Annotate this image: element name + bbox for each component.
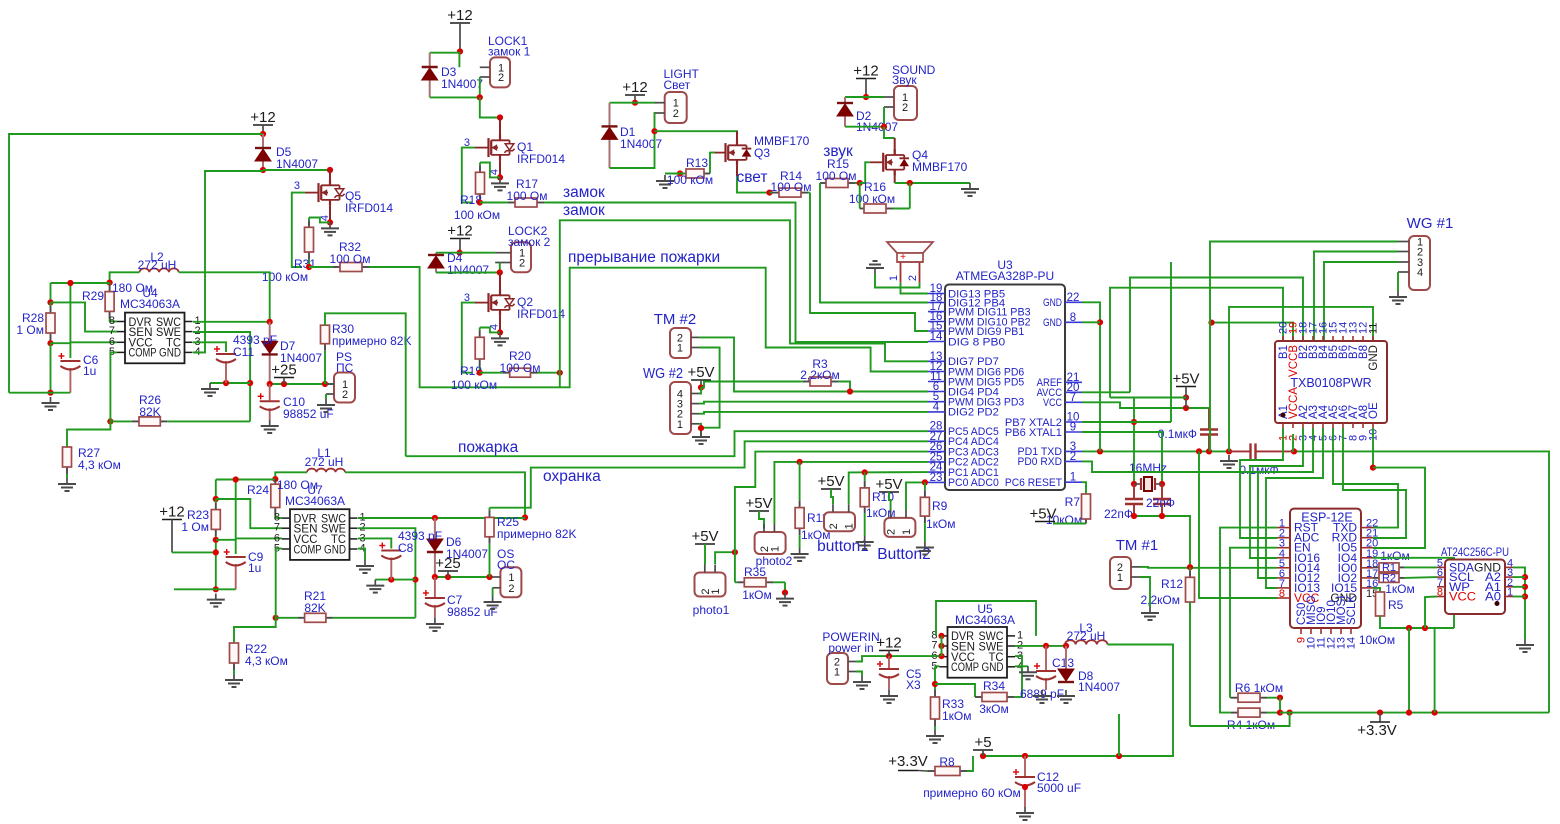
resistor R32	[309, 263, 370, 272]
svg-text:пожарка: пожарка	[458, 439, 519, 456]
wire +25 row U7	[435, 576, 493, 578]
net wire пожарка	[406, 431, 928, 456]
resistor R8	[927, 767, 968, 776]
wire Q4 drain red	[894, 138, 896, 155]
junction	[260, 167, 266, 173]
label Q5 value	[345, 201, 393, 215]
wire v1434	[1434, 628, 1436, 713]
svg-text:2,2кОм: 2,2кОм	[800, 368, 840, 382]
svg-text:+12: +12	[853, 63, 878, 80]
svg-text:1кОм: 1кОм	[926, 517, 956, 531]
IC U3 ATMEGA328P-PU	[928, 283, 1082, 490]
svg-text:GND: GND	[1043, 297, 1062, 309]
label R16	[864, 180, 886, 194]
wire v1409	[1408, 628, 1410, 713]
junction	[1183, 394, 1189, 400]
wire powerin pin2	[856, 656, 940, 661]
svg-text:4: 4	[1417, 267, 1423, 279]
label D7 value	[280, 351, 322, 365]
svg-text:AT24C256C-PU: AT24C256C-PU	[1441, 545, 1509, 559]
svg-text:SCLK: SCLK	[1346, 595, 1358, 625]
wire B8 feed	[1229, 307, 1373, 452]
net wire охранка	[490, 441, 929, 507]
label R11 value	[801, 528, 831, 542]
wire B1 feed	[1110, 288, 1283, 398]
label LIGHT	[664, 67, 700, 81]
label R23 value	[181, 520, 209, 534]
svg-text:100 Ом: 100 Ом	[330, 252, 371, 266]
svg-text:1: 1	[834, 667, 840, 679]
label U4 type	[120, 297, 180, 311]
label C5	[906, 667, 922, 681]
label TM2	[654, 311, 697, 328]
label LIGHT ru	[664, 78, 691, 92]
label L3 value	[1067, 629, 1106, 643]
label C8 value	[398, 529, 442, 543]
svg-text:+5: +5	[974, 734, 991, 751]
svg-text:+25: +25	[435, 555, 460, 572]
diode D8	[1058, 646, 1074, 683]
wire SWE	[193, 332, 250, 421]
svg-text:100 кОм: 100 кОм	[667, 173, 713, 187]
ground	[201, 383, 219, 396]
resistor R6	[1230, 693, 1280, 702]
svg-text:R4 1кОм: R4 1кОм	[1227, 718, 1275, 732]
wire SWE U5	[1015, 645, 1065, 647]
wire VCC7	[1082, 402, 1209, 408]
svg-text:Звук: Звук	[892, 73, 917, 87]
diode D6	[427, 518, 443, 577]
label D3 value	[441, 77, 483, 91]
svg-text:8: 8	[1437, 587, 1443, 599]
svg-text:+12: +12	[447, 223, 472, 240]
label R27 value	[78, 458, 121, 472]
label Q4	[912, 148, 928, 162]
label R26	[139, 393, 161, 407]
junction	[1226, 448, 1232, 454]
svg-text:+5V: +5V	[1029, 506, 1056, 523]
capacitor C12	[1013, 756, 1035, 807]
wire OE w	[1372, 428, 1374, 468]
net замок 2	[563, 202, 605, 219]
capacitor C7	[423, 577, 445, 618]
diode D3	[422, 53, 438, 98]
junction	[1277, 695, 1283, 701]
junction	[632, 100, 638, 106]
wire D1 loop	[610, 113, 656, 168]
resistor R24	[271, 479, 280, 518]
junction	[1022, 753, 1028, 759]
wire src to R18	[480, 163, 500, 178]
svg-text:R31: R31	[294, 257, 316, 271]
wire R6 drop	[1279, 698, 1281, 713]
junction	[497, 329, 503, 335]
wire to Q3 drain	[655, 131, 738, 146]
junction	[267, 381, 273, 387]
wire photo2 pin1 to pin25	[774, 462, 928, 524]
junction	[862, 469, 868, 475]
label OS ru	[497, 558, 515, 572]
wire Q3 drain red	[736, 131, 738, 145]
ground	[1516, 639, 1534, 652]
wire R20 right	[543, 372, 560, 374]
svg-text:22: 22	[1067, 292, 1080, 304]
svg-text:1: 1	[1070, 472, 1076, 484]
wire COMP U7	[276, 549, 282, 618]
junction	[1522, 574, 1528, 580]
svg-text:+12: +12	[622, 79, 647, 96]
ground	[366, 580, 384, 593]
label R2	[1382, 573, 1396, 585]
junction	[1097, 448, 1103, 454]
label R11	[807, 511, 828, 525]
connector SOUND	[884, 86, 917, 120]
wire gnd row U7	[174, 588, 236, 590]
svg-text:100 Ом: 100 Ом	[507, 189, 548, 203]
label R18	[460, 193, 482, 207]
label R8	[939, 755, 955, 769]
capacitor C 22pF a	[1125, 484, 1143, 516]
junction	[797, 459, 803, 465]
label R32 value	[330, 252, 371, 266]
label R15 value	[816, 169, 857, 183]
wire L3 right loop	[983, 645, 1173, 757]
junction	[213, 496, 219, 502]
power +12 (LOCK1)	[447, 7, 472, 52]
label Q4 type	[912, 160, 968, 174]
resistor R5	[1376, 592, 1385, 616]
junction	[886, 653, 892, 659]
ground	[926, 730, 944, 743]
connector LOCK1	[480, 57, 510, 87]
svg-text:охранка: охранка	[543, 468, 601, 485]
wire lock1 bottom	[430, 77, 480, 97]
junction	[1370, 465, 1376, 471]
label D7	[280, 339, 296, 353]
wire A5 w5	[1333, 428, 1398, 528]
svg-text:22пФ: 22пФ	[1146, 496, 1175, 510]
svg-text:MMBF170: MMBF170	[912, 160, 968, 174]
label LOCK1 ru	[488, 45, 531, 59]
ground	[484, 596, 502, 609]
ground	[1220, 455, 1238, 468]
net замок	[563, 184, 605, 201]
wire A3 w3	[1258, 428, 1313, 578]
svg-text:замок: замок	[563, 202, 605, 219]
junction	[1159, 513, 1165, 519]
svg-text:+5V: +5V	[691, 528, 718, 545]
wire GND pin U5	[1015, 665, 1028, 667]
resistor R35	[735, 578, 785, 587]
svg-text:1: 1	[677, 419, 683, 431]
svg-text:1: 1	[710, 588, 722, 594]
svg-text:+5V: +5V	[745, 495, 772, 512]
junction	[47, 390, 53, 396]
svg-text:1кОм: 1кОм	[742, 588, 772, 602]
label C6	[83, 353, 99, 367]
junction	[698, 425, 704, 431]
wire A0 stub	[1513, 596, 1525, 598]
ground	[1033, 690, 1051, 703]
wire +12 rail left loop	[9, 134, 263, 393]
label R12 value	[1140, 593, 1180, 607]
resistor R18	[476, 163, 485, 203]
svg-text:OE: OE	[1368, 402, 1380, 419]
IC U8 AT24C256C-PU	[1437, 557, 1513, 614]
svg-text:PD0 RXD: PD0 RXD	[1018, 456, 1063, 468]
resistor R23	[211, 499, 220, 589]
label Q3 type	[754, 134, 810, 148]
resistor R33	[931, 666, 940, 730]
svg-text:photo2: photo2	[756, 554, 793, 568]
label LOCK2 ru	[508, 235, 551, 249]
label R28 value	[16, 323, 44, 337]
ground	[491, 332, 509, 345]
label C11 value	[233, 333, 277, 347]
capacitor C5	[877, 656, 899, 690]
label R26 value	[139, 405, 160, 419]
power +3.3V (R8)	[888, 753, 928, 771]
svg-text:10кОм: 10кОм	[1359, 633, 1395, 647]
svg-text:14: 14	[1346, 637, 1358, 649]
svg-text:2: 2	[342, 389, 348, 401]
svg-text:82K: 82K	[304, 601, 325, 615]
svg-text:23: 23	[930, 472, 943, 484]
svg-text:TM #2: TM #2	[654, 311, 697, 328]
svg-text:4: 4	[933, 401, 940, 413]
junction	[1377, 710, 1383, 716]
junction	[651, 128, 657, 134]
svg-text:DIG 8 PB0: DIG 8 PB0	[948, 336, 1005, 348]
ground	[207, 594, 225, 607]
svg-text:2: 2	[673, 108, 679, 120]
resistor R1	[1373, 563, 1404, 572]
capacitor C 22pF b	[1153, 484, 1171, 516]
svg-text:C13: C13	[1052, 656, 1074, 670]
ground	[853, 676, 871, 689]
svg-text:прерывание пожарки: прерывание пожарки	[568, 249, 720, 266]
label C7	[447, 593, 463, 607]
label D4	[447, 251, 463, 265]
wire Q2 gate	[462, 303, 475, 373]
crystal X1 16MHz	[1134, 477, 1162, 491]
label R28	[22, 311, 44, 325]
wire SWC to node	[193, 321, 270, 323]
diode D4	[428, 253, 444, 273]
wire to Q4 drain	[884, 127, 895, 138]
wire VCC AT24	[1425, 597, 1437, 629]
label R32	[339, 240, 361, 254]
connector OS	[492, 567, 521, 597]
resistor R27	[63, 447, 72, 478]
wire R5 bottom row	[1380, 616, 1454, 628]
wire Q2 source red	[499, 316, 501, 333]
svg-text:R7: R7	[1065, 495, 1081, 509]
wire Q1 gate	[462, 148, 475, 203]
svg-text:1N4007: 1N4007	[447, 263, 489, 277]
label R24	[247, 483, 269, 497]
wire GND pin U7	[358, 549, 365, 560]
svg-text:примерно 82K: примерно 82K	[332, 334, 411, 348]
label L2	[150, 250, 164, 264]
svg-text:COMP: COMP	[294, 544, 322, 556]
svg-text:WG #1: WG #1	[1407, 215, 1454, 232]
inductor L2	[140, 268, 179, 272]
wire RXD	[1082, 461, 1258, 472]
IC U7 MC34063A	[274, 509, 366, 560]
svg-text:PC6 RESET: PC6 RESET	[1005, 477, 1063, 489]
svg-text:2: 2	[907, 275, 919, 281]
svg-text:1 Ом: 1 Ом	[16, 323, 44, 337]
label R18 value	[454, 208, 500, 222]
wire wg1 pin1	[1210, 242, 1398, 452]
svg-text:TM #1: TM #1	[1116, 537, 1159, 554]
wire crystal left drop	[1133, 398, 1135, 485]
svg-text:4,3 кОм: 4,3 кОм	[78, 458, 121, 472]
svg-text:11: 11	[1368, 323, 1380, 334]
resistor R9	[920, 482, 929, 541]
connector TM #2	[670, 328, 699, 358]
label photo2	[756, 554, 793, 568]
label 16MHz	[1129, 461, 1167, 475]
label U7 type	[285, 494, 345, 508]
net звук	[823, 143, 853, 160]
label C8	[398, 541, 414, 555]
power +25 (PS)	[271, 362, 296, 385]
wire Q1 drain red	[499, 118, 501, 141]
svg-text:1: 1	[677, 343, 683, 355]
wire L2 left	[110, 272, 140, 282]
wire Q5 source red	[329, 206, 331, 223]
label D4 value	[447, 263, 489, 277]
wire R28 top row	[51, 282, 110, 284]
wire TM2 pin1	[699, 348, 720, 428]
resistor R10	[860, 472, 869, 536]
wire sound bottom	[845, 107, 884, 127]
capacitor C8	[379, 543, 401, 580]
label C10 value	[283, 407, 334, 421]
junction	[432, 515, 438, 521]
svg-text:Свет: Свет	[664, 78, 691, 92]
wire photo1 to pin26	[735, 452, 928, 553]
ground	[321, 222, 339, 235]
wire L1 left	[275, 472, 307, 479]
label R9	[932, 499, 948, 513]
connector LOCK2	[495, 242, 531, 272]
junction	[1159, 481, 1165, 487]
connector POWERIN	[827, 653, 856, 684]
label R29	[82, 289, 104, 303]
junction	[1406, 625, 1412, 631]
label D6 value	[446, 547, 488, 561]
svg-text:photo1: photo1	[693, 603, 730, 617]
svg-text:3: 3	[294, 180, 300, 192]
svg-text:Q3: Q3	[754, 146, 770, 160]
wire lock1 top	[430, 53, 460, 68]
wire Q1 source red	[499, 161, 501, 178]
label R22	[245, 642, 267, 656]
ground	[426, 618, 444, 631]
resistor R12	[1186, 567, 1195, 612]
svg-text:+: +	[900, 252, 906, 263]
label R15	[827, 157, 849, 171]
net пожарка	[458, 439, 519, 456]
svg-text:power in: power in	[828, 641, 873, 655]
label R5	[1388, 598, 1404, 612]
wire TC to C8	[358, 538, 391, 548]
wire A2 w2	[1250, 428, 1303, 558]
power +5V (photo2)	[745, 495, 772, 512]
junction	[445, 574, 451, 580]
label R21 value	[304, 601, 325, 615]
label D2	[856, 109, 872, 123]
ground	[961, 183, 979, 196]
resistor R26	[110, 417, 250, 426]
transistor Q5	[305, 180, 345, 206]
svg-text:14: 14	[930, 331, 943, 343]
svg-text:+5V: +5V	[817, 473, 844, 490]
junction	[477, 199, 483, 205]
junction	[107, 418, 113, 424]
svg-text:R34: R34	[983, 679, 1005, 693]
junction	[432, 574, 438, 580]
wire v1171	[1170, 262, 1172, 422]
diode D7	[262, 322, 278, 384]
label C13	[1052, 656, 1074, 670]
wire VCC ESP feed	[1199, 451, 1277, 598]
wire light top	[610, 102, 656, 104]
power +5 (U5)	[973, 734, 993, 756]
label U3	[997, 258, 1013, 272]
wire gnd row	[9, 392, 70, 394]
junction	[47, 340, 53, 346]
wire COMP U5	[935, 665, 940, 667]
label R24 value	[277, 478, 318, 492]
svg-text:100 кОм: 100 кОм	[451, 378, 497, 392]
label C11	[233, 345, 254, 359]
svg-text:100 кОм: 100 кОм	[849, 192, 895, 206]
junction	[1063, 643, 1069, 649]
junction	[1131, 481, 1137, 487]
power +12 (SOUND)	[853, 63, 878, 98]
wire R15 to pin18	[820, 183, 928, 303]
svg-text:3кОм: 3кОм	[979, 702, 1009, 716]
wire A2 stub	[1513, 576, 1525, 578]
label D8	[1078, 669, 1094, 683]
label L2 value	[138, 258, 177, 272]
wire R7 to 5v	[1053, 523, 1086, 525]
wire R22 link	[234, 618, 276, 643]
label R19	[460, 364, 482, 378]
wire R23top	[215, 480, 217, 500]
speaker LS1	[887, 242, 933, 283]
junction	[213, 537, 219, 543]
connector WG #1	[1398, 236, 1430, 290]
wire wg1 pin3	[1324, 262, 1398, 341]
capacitor C6	[58, 353, 80, 393]
ground	[1019, 666, 1037, 679]
transistor Q1	[475, 135, 515, 161]
wire IO15 to R5	[1373, 588, 1380, 592]
wire GND8	[1082, 321, 1100, 323]
svg-text:2: 2	[519, 258, 525, 270]
junction	[1208, 320, 1214, 326]
wire R34 link	[935, 684, 975, 697]
junction	[477, 370, 483, 376]
svg-text:примерно 60 кОм: примерно 60 кОм	[923, 786, 1021, 800]
svg-text:C11: C11	[233, 345, 254, 359]
wire C8 gnd row	[375, 579, 415, 581]
